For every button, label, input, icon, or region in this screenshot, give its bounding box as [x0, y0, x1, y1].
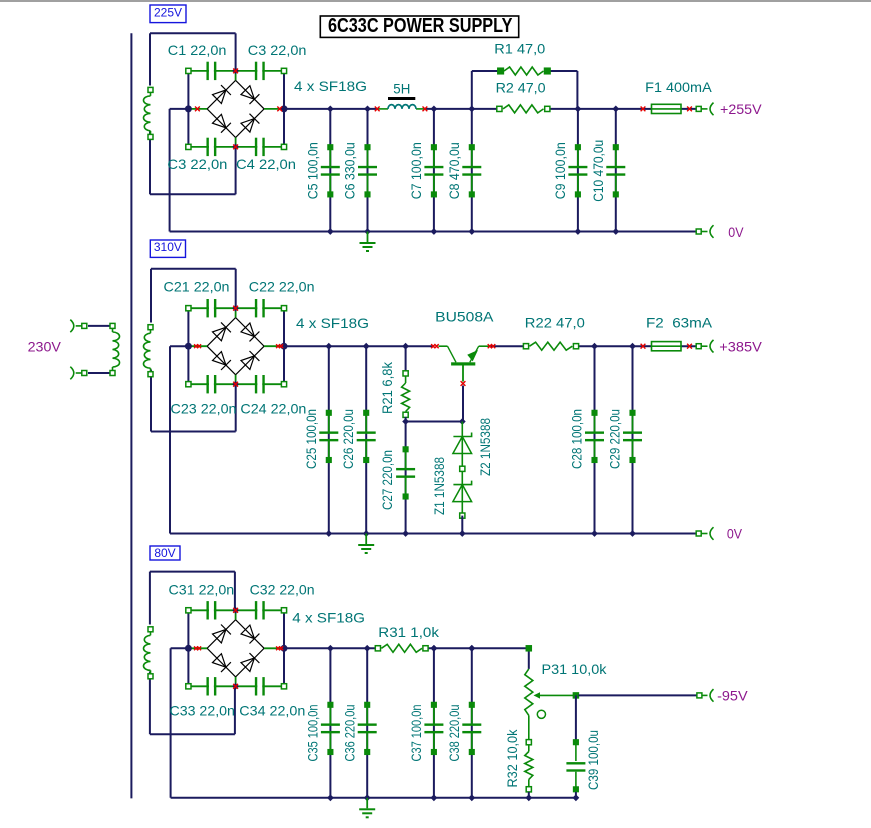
svg-text:C24 22,0n: C24 22,0n — [240, 400, 306, 416]
svg-text:C34 22,0n: C34 22,0n — [239, 703, 305, 719]
svg-text:4 x SF18G: 4 x SF18G — [294, 78, 367, 94]
svg-text:4 x SF18G: 4 x SF18G — [292, 610, 365, 626]
svg-text:225V: 225V — [154, 5, 182, 19]
svg-text:R31 1,0k: R31 1,0k — [378, 624, 440, 640]
svg-text:0V: 0V — [728, 224, 744, 240]
svg-text:C3 22,0n: C3 22,0n — [167, 156, 227, 172]
svg-text:R22 47,0: R22 47,0 — [525, 315, 585, 331]
svg-text:C6 330,0u: C6 330,0u — [342, 142, 358, 199]
svg-text:C33 22,0n: C33 22,0n — [170, 703, 235, 719]
svg-text:C27 220,0n: C27 220,0n — [379, 450, 395, 510]
svg-text:C21 22,0n: C21 22,0n — [164, 279, 230, 295]
svg-text:C5 100,0n: C5 100,0n — [304, 142, 320, 199]
svg-text:Z1 1N5388: Z1 1N5388 — [431, 457, 447, 515]
svg-text:R32 10,0k: R32 10,0k — [504, 729, 520, 788]
svg-text:C8 470,0u: C8 470,0u — [446, 142, 462, 199]
svg-text:-95V: -95V — [717, 688, 748, 704]
svg-text:C26 220,0u: C26 220,0u — [340, 409, 356, 469]
svg-text:F1 400mA: F1 400mA — [645, 79, 712, 95]
svg-text:C23 22,0n: C23 22,0n — [171, 400, 237, 416]
svg-text:R2 47,0: R2 47,0 — [496, 80, 546, 96]
svg-text:P31 10,0k: P31 10,0k — [542, 661, 608, 677]
svg-text:C37 100,0n: C37 100,0n — [408, 705, 424, 762]
svg-text:C32 22,0n: C32 22,0n — [250, 582, 315, 598]
svg-text:C29 220,0u: C29 220,0u — [606, 409, 622, 469]
svg-text:230V: 230V — [28, 339, 62, 355]
svg-text:+385V: +385V — [719, 339, 762, 355]
svg-text:C36 220,0u: C36 220,0u — [341, 705, 357, 762]
svg-text:C7 100,0n: C7 100,0n — [408, 142, 424, 199]
svg-text:C22 22,0n: C22 22,0n — [249, 279, 315, 295]
svg-text:F2 63mA: F2 63mA — [646, 315, 713, 331]
svg-text:C1 22,0n: C1 22,0n — [168, 42, 227, 58]
svg-text:R1 47,0: R1 47,0 — [494, 41, 545, 57]
svg-text:0V: 0V — [727, 526, 743, 542]
svg-text:C38 220,0u: C38 220,0u — [446, 705, 462, 762]
svg-text:C25 100,0n: C25 100,0n — [303, 409, 319, 469]
svg-text:C3 22,0n: C3 22,0n — [248, 42, 307, 58]
svg-text:310V: 310V — [154, 240, 182, 254]
svg-text:4 x SF18G: 4 x SF18G — [296, 315, 369, 331]
svg-text:C10 470,0u: C10 470,0u — [590, 140, 606, 202]
svg-text:C31 22,0n: C31 22,0n — [169, 582, 235, 598]
svg-text:C9 100,0n: C9 100,0n — [552, 142, 568, 199]
svg-text:5H: 5H — [393, 81, 410, 97]
svg-text:+255V: +255V — [720, 101, 762, 117]
svg-text:Z2 1N5388: Z2 1N5388 — [477, 418, 493, 476]
svg-text:C28 100,0n: C28 100,0n — [568, 409, 584, 469]
svg-text:C35 100,0n: C35 100,0n — [304, 705, 320, 762]
svg-text:C4 22,0n: C4 22,0n — [236, 156, 296, 172]
svg-text:C39 100,0u: C39 100,0u — [585, 730, 601, 790]
svg-text:R21 6,8k: R21 6,8k — [379, 361, 395, 414]
svg-text:80V: 80V — [154, 546, 175, 560]
svg-text:BU508A: BU508A — [435, 309, 494, 325]
svg-text:6C33C POWER SUPPLY: 6C33C POWER SUPPLY — [328, 15, 513, 37]
